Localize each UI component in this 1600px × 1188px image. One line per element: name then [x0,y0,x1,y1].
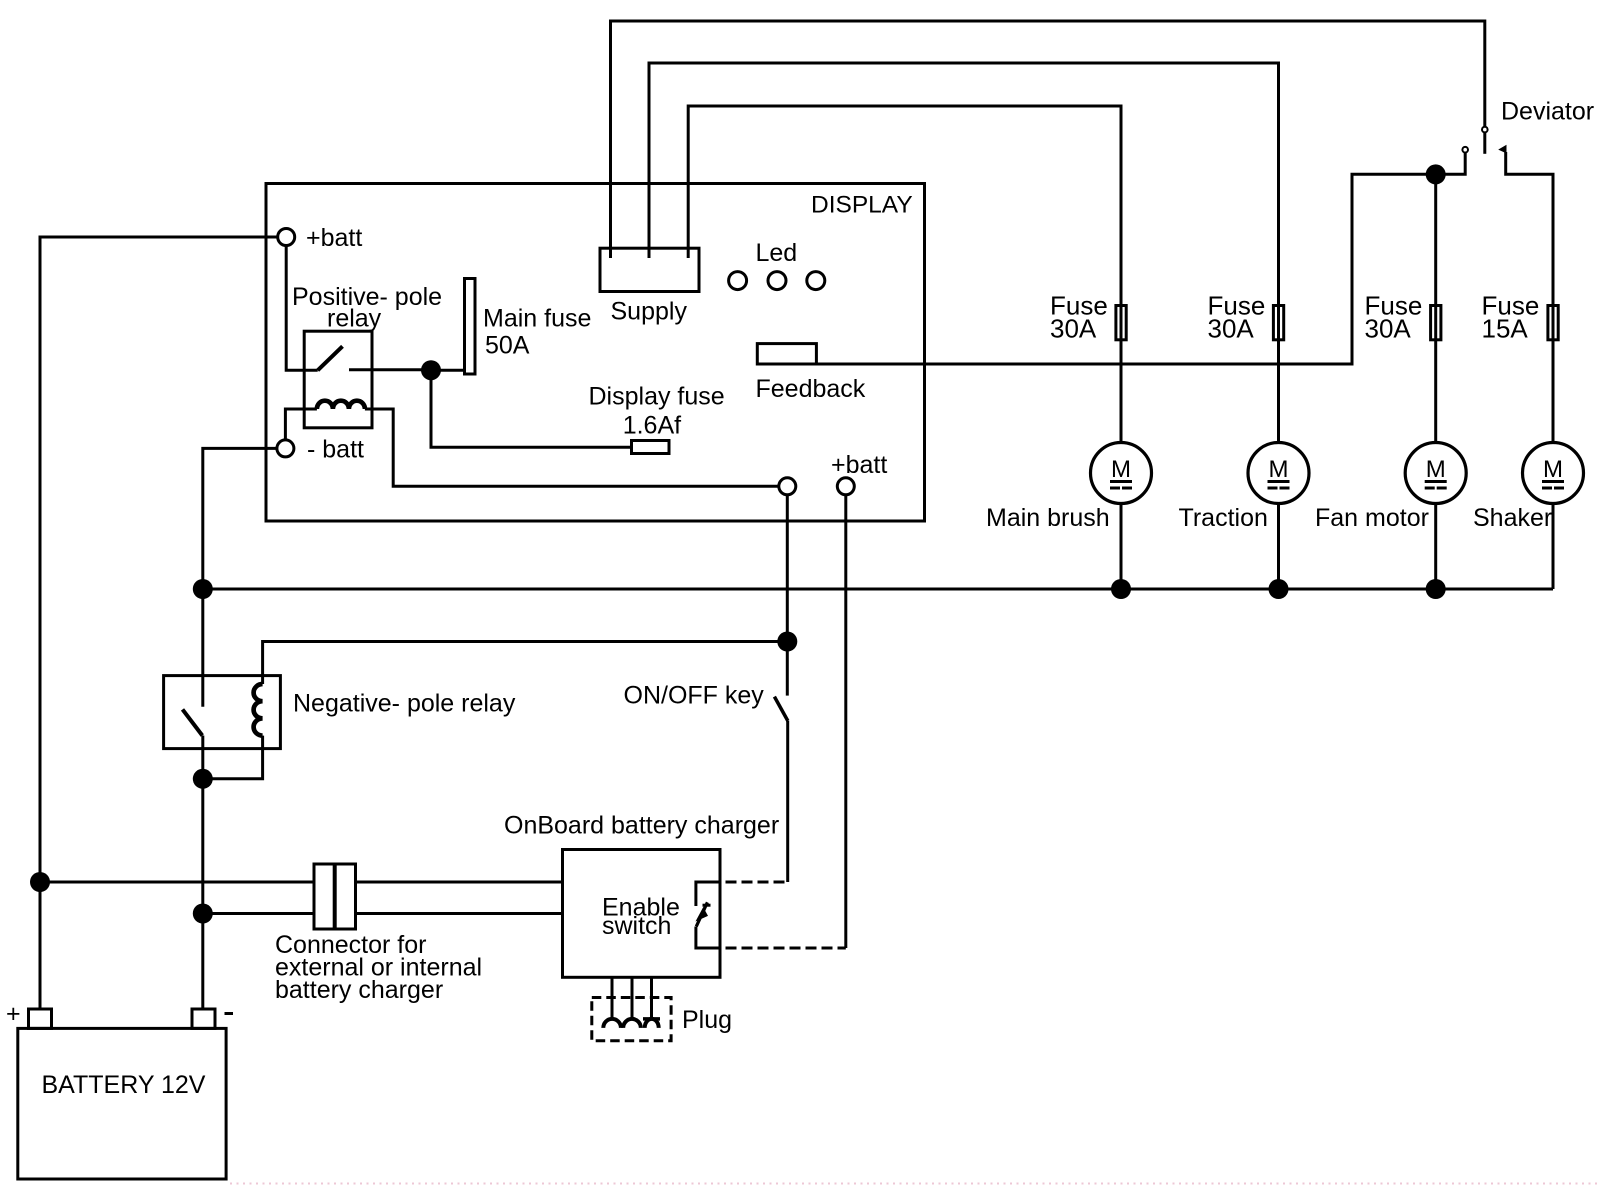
supply connector U1 [600,248,699,291]
svg-text:Negative- pole relay: Negative- pole relay [293,690,516,718]
svg-text:BATTERY 12V: BATTERY 12V [42,1071,206,1099]
enable switch tick [703,904,711,907]
wire connector to charger (lower) [356,912,563,915]
feedback connector [757,344,816,364]
wire main brush motor to bus [1120,504,1123,590]
battery minus sign [225,1012,234,1015]
positive relay coil right lead [365,409,779,486]
motor fan [1405,443,1466,504]
svg-text:Main fuse: Main fuse [483,304,591,332]
ground bus wire [203,588,1553,591]
plug pin arc 2 [623,1019,641,1028]
wire shaker motor to bus [1552,504,1555,590]
wire negative relay to battery minus [201,779,204,1010]
svg-text:Traction: Traction [1179,504,1268,532]
svg-text:Led: Led [756,239,798,267]
main fuse 50A [465,279,476,375]
enable switch bracket bottom [696,927,710,949]
svg-text:M: M [1111,456,1131,483]
plug pin arc 1 [603,1019,621,1028]
charger plug wire 2 [631,977,634,1019]
positive relay switch right lead [349,368,431,371]
wire connector to charger (upper) [356,881,563,884]
battery box [18,1028,226,1179]
negative relay coil bottom lead [203,736,263,779]
wire node to main fuse [431,369,465,372]
wire traction motor to bus [1277,504,1280,590]
svg-text:battery charger: battery charger [275,976,443,1004]
svg-text:50A: 50A [485,332,530,360]
svg-text:Supply: Supply [611,298,688,326]
wire -batt to negative relay [203,448,277,706]
deviator right lead to shaker branch [1506,152,1553,442]
negative relay coil [254,684,263,736]
junction dot bus fan [1426,579,1446,599]
svg-text:- batt: - batt [307,436,364,464]
plug dashed box [592,998,671,1041]
wire battery plus to connector [40,881,314,884]
junction dot battery minus branch [193,904,213,924]
junction dot main fuse node [421,360,441,380]
wire +batt to battery plus [40,237,278,1010]
wire terminal to on/off key node [786,495,789,642]
feedback wire to deviator left contact [816,153,1465,364]
led L1 [729,272,747,290]
wire +batt circle to relay switch [286,246,318,371]
svg-text:Plug: Plug [682,1006,732,1034]
fuse 30A main brush [1116,306,1126,340]
svg-text:+batt: +batt [831,451,887,479]
+batt lower terminal circle [837,478,854,495]
wire supply pin1 to deviator common (top rail) [611,21,1485,258]
negative-pole relay box [164,676,281,749]
svg-text:+: + [6,1000,21,1028]
battery terminal plus [29,1009,52,1028]
positive relay coil [317,401,365,409]
plug pin arc 3 [645,1019,659,1028]
wire supply pin2 to traction branch [649,63,1279,442]
deviator left contact circle [1462,147,1468,153]
fuse 30A fan [1431,306,1441,340]
svg-text:30A: 30A [1208,314,1255,344]
junction dot bus left [193,579,213,599]
motor main brush [1091,443,1152,504]
svg-text:M: M [1543,456,1563,483]
positive relay coil left lead [285,409,317,440]
svg-text:Shaker: Shaker [1473,504,1552,532]
positive-pole relay box [304,331,372,428]
junction dot battery plus branch [30,872,50,892]
svg-text:OnBoard battery charger: OnBoard battery charger [504,812,779,840]
wire battery minus to connector [203,912,314,915]
svg-text:M: M [1426,456,1446,483]
svg-text:Fan motor: Fan motor [1315,504,1429,532]
svg-text:Main brush: Main brush [986,504,1110,532]
on/off key switch [786,642,789,696]
svg-text:M: M [1269,456,1289,483]
svg-text:30A: 30A [1050,314,1097,344]
junction dot bus traction [1269,579,1289,599]
wire fan motor to bus [1434,504,1437,590]
wire +batt lower terminal to enable switch [844,495,847,948]
svg-text:15A: 15A [1482,314,1529,344]
plug pin 3 bar [643,1017,660,1021]
junction dot fan branch [1426,164,1446,184]
svg-text:DISPLAY: DISPLAY [811,191,913,218]
wire supply pin3 to main brush branch [688,106,1121,442]
svg-text:Feedback: Feedback [756,375,866,403]
enable switch arrow [697,908,708,920]
svg-text:1.6Af: 1.6Af [623,411,681,439]
motor traction [1248,443,1309,504]
fuse 30A traction [1273,306,1283,340]
charger connector [314,864,356,929]
led L2 [768,272,786,290]
wire fan branch [1434,174,1437,442]
display fuse 1.6Af [632,441,670,454]
svg-text:30A: 30A [1365,314,1412,344]
deviator common contact circle [1482,127,1488,133]
svg-text:switch: switch [602,912,671,940]
-batt terminal circle [277,440,294,457]
charger plug wire 3 [650,977,653,1019]
display bottom terminal circle (feedback/key) [779,478,796,495]
led L3 [807,272,825,290]
bottom page artifact line [230,1183,1598,1185]
svg-text:ON/OFF key: ON/OFF key [624,682,765,710]
svg-text:Display fuse: Display fuse [589,383,725,411]
+batt terminal circle [278,229,295,246]
motor shaker [1523,443,1584,504]
junction dot on/off key node [777,632,797,652]
charger plug wire 1 [611,977,614,1019]
enable switch blade [696,902,707,926]
battery terminal minus [192,1009,215,1028]
fuse 15A shaker [1548,306,1558,340]
negative relay switch blade [183,709,203,735]
junction dot bus main brush [1111,579,1131,599]
wire on/off node to negative relay coil [263,642,788,685]
enable switch bracket top [696,882,710,906]
junction dot negative relay output [193,769,213,789]
wire node to display fuse [431,370,632,447]
onboard battery charger box [563,850,721,978]
DISPLAY box [266,184,925,522]
dashed wire enable switch to on/off key [710,881,788,884]
negative relay switch lower lead [201,736,204,779]
deviator common wire blade [1483,133,1486,154]
dashed wire enable switch to +batt [710,947,846,950]
svg-text:Deviator: Deviator [1501,98,1594,126]
svg-text:relay: relay [327,305,382,333]
positive relay switch blade [318,346,343,370]
svg-text:+batt: +batt [306,224,362,252]
deviator right contact arrow [1499,146,1506,153]
